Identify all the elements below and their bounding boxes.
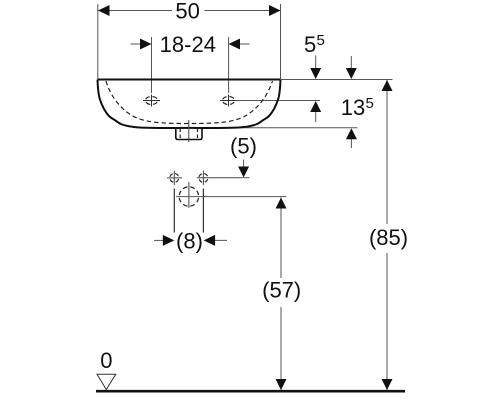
- svg-text:(85): (85): [369, 225, 408, 250]
- svg-text:50: 50: [175, 0, 199, 24]
- svg-text:18-24: 18-24: [160, 32, 216, 57]
- svg-text:5: 5: [304, 32, 316, 57]
- svg-text:(5): (5): [230, 134, 257, 159]
- svg-text:13: 13: [341, 95, 365, 120]
- svg-text:(8): (8): [176, 229, 203, 254]
- svg-text:5: 5: [317, 32, 325, 49]
- svg-text:(57): (57): [262, 278, 301, 303]
- svg-text:0: 0: [100, 348, 112, 373]
- svg-text:5: 5: [366, 95, 374, 112]
